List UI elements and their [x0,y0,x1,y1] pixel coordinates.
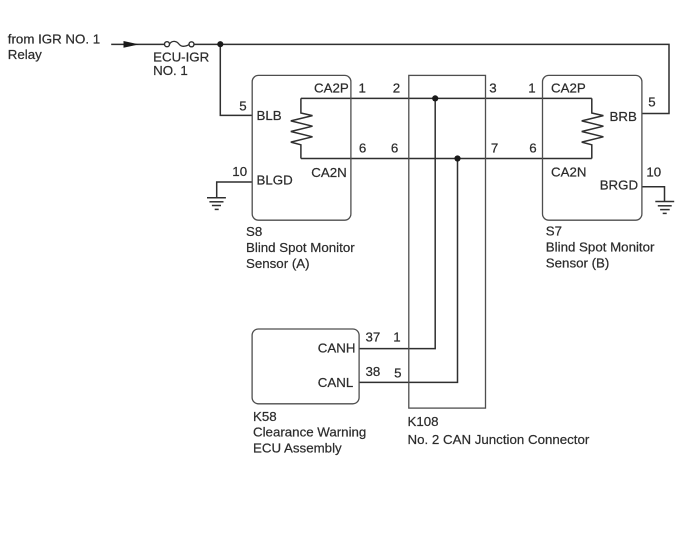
svg-text:K108: K108 [408,414,439,429]
svg-text:CANL: CANL [318,375,353,390]
svg-text:CA2P: CA2P [551,81,586,96]
svg-text:6: 6 [359,141,366,156]
svg-text:1: 1 [528,81,535,96]
svg-text:BLB: BLB [257,108,282,123]
svg-text:ECU Assembly: ECU Assembly [253,440,342,455]
svg-text:2: 2 [393,81,400,96]
svg-text:5: 5 [394,366,401,381]
svg-text:Clearance Warning: Clearance Warning [253,425,366,440]
svg-text:CA2N: CA2N [311,165,346,180]
svg-text:K58: K58 [253,409,277,424]
svg-text:Sensor (B): Sensor (B) [546,256,610,271]
svg-text:Relay: Relay [8,47,42,62]
svg-text:Blind Spot Monitor: Blind Spot Monitor [546,240,655,255]
svg-text:No. 2 CAN Junction Connector: No. 2 CAN Junction Connector [408,432,590,447]
svg-text:Blind Spot Monitor: Blind Spot Monitor [246,240,355,255]
svg-text:S8: S8 [246,224,262,239]
svg-text:BRB: BRB [610,109,637,124]
svg-text:BRGD: BRGD [600,178,638,193]
svg-text:BLGD: BLGD [257,172,293,187]
svg-text:1: 1 [393,330,400,345]
svg-text:6: 6 [391,141,398,156]
svg-text:Sensor (A): Sensor (A) [246,256,310,271]
svg-text:CA2N: CA2N [551,164,586,179]
svg-text:10: 10 [232,164,247,179]
svg-text:37: 37 [366,330,381,345]
svg-text:NO. 1: NO. 1 [153,63,188,78]
svg-text:CA2P: CA2P [314,81,349,96]
svg-text:5: 5 [648,94,655,109]
svg-text:from IGR NO. 1: from IGR NO. 1 [8,32,100,47]
svg-text:10: 10 [646,165,661,180]
svg-text:7: 7 [491,141,498,156]
svg-text:CANH: CANH [318,341,356,356]
svg-text:S7: S7 [546,223,562,238]
svg-text:1: 1 [358,81,365,96]
svg-text:6: 6 [529,141,536,156]
svg-text:5: 5 [239,98,246,113]
svg-text:3: 3 [489,81,496,96]
svg-text:38: 38 [366,364,381,379]
